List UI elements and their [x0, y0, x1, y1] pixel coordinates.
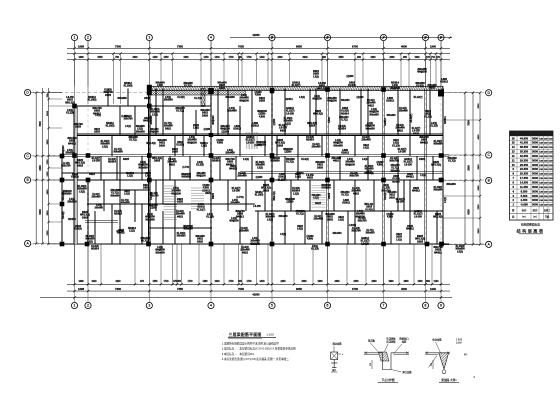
svg-text:4000: 4000: [477, 134, 480, 140]
svg-text:KL5(3): KL5(3): [365, 209, 372, 211]
stair treads mid (grid3-4): [164, 185, 178, 187]
svg-text:(2)200: (2)200: [150, 208, 157, 210]
svg-text:KL1(3): KL1(3): [62, 163, 69, 165]
beam H y=244: [62, 243, 449, 245]
vertical grid lines: [74, 41, 76, 86]
svg-text:L2(2): L2(2): [445, 197, 447, 203]
beam H y=173: [62, 172, 150, 174]
svg-text:L6(1): L6(1): [95, 115, 101, 117]
svg-text:3.本层标高→ 本层梁顶110.: 3.本层标高→ 本层梁顶110.: [222, 352, 255, 356]
svg-text:G2Φ12: G2Φ12: [386, 100, 394, 103]
svg-text:KL7(1): KL7(1): [448, 160, 456, 163]
svg-text:6650: 6650: [296, 45, 302, 49]
svg-text:KL10(3): KL10(3): [124, 85, 133, 88]
svg-text:2Φ18: 2Φ18: [144, 97, 151, 100]
svg-text:L6(1): L6(1): [124, 194, 130, 196]
svg-text:250x400: 250x400: [237, 175, 247, 178]
svg-text:6Φ25: 6Φ25: [212, 192, 215, 198]
svg-text:L3(1): L3(1): [96, 205, 102, 207]
svg-text:KL7(1): KL7(1): [391, 168, 398, 170]
top beam hatched: [149, 86, 443, 90]
svg-text:L3(1): L3(1): [193, 127, 199, 130]
svg-text:2Φ25: 2Φ25: [205, 192, 212, 195]
grid7 beam: [383, 89, 385, 245]
svg-text:N2Φ14: N2Φ14: [392, 180, 400, 183]
svg-text:4.800: 4.800: [377, 164, 384, 167]
svg-text:WKL3(2): WKL3(2): [65, 102, 75, 104]
svg-text:Φ8@100: Φ8@100: [212, 115, 215, 125]
svg-text:250x400: 250x400: [239, 230, 249, 233]
svg-text:Φ8@200: Φ8@200: [390, 87, 400, 90]
svg-text:8: 8: [425, 304, 427, 308]
svg-text:13: 13: [512, 150, 515, 154]
svg-text:L8-250: L8-250: [361, 242, 369, 245]
svg-text:L5(2): L5(2): [313, 198, 319, 200]
beam H y=180: [62, 179, 443, 181]
svg-text:6Φ25: 6Φ25: [413, 132, 420, 135]
svg-text:14.350: 14.350: [520, 181, 529, 185]
svg-text:2Φ20: 2Φ20: [172, 151, 179, 154]
svg-text:KL5(3): KL5(3): [385, 192, 387, 199]
svg-text:1.本图所有钢筋混凝土构件中未注明,皆以轴线居中.: 1.本图所有钢筋混凝土构件中未注明,皆以轴线居中.: [222, 342, 280, 346]
svg-text:4Φ22: 4Φ22: [177, 215, 184, 218]
svg-text:2400: 2400: [46, 189, 49, 195]
svg-text:2Φ20: 2Φ20: [145, 172, 152, 175]
svg-text:N2Φ14: N2Φ14: [341, 112, 349, 115]
svg-text:250x400: 250x400: [311, 146, 321, 149]
svg-text:L2(2): L2(2): [243, 158, 249, 161]
svg-text:梁加固-大样1: 梁加固-大样1: [440, 378, 457, 382]
svg-text:L5(2): L5(2): [79, 190, 85, 193]
svg-text:WKL3(2): WKL3(2): [146, 143, 156, 145]
svg-text:200x450: 200x450: [227, 110, 237, 113]
svg-text:2Φ18: 2Φ18: [328, 192, 331, 198]
svg-text:L8-250: L8-250: [253, 206, 261, 208]
svg-text:KL9(2): KL9(2): [92, 194, 99, 196]
svg-text:250x400: 250x400: [366, 102, 376, 105]
svg-text:300x600: 300x600: [387, 192, 397, 194]
stair treads upper (grid5): [246, 132, 248, 149]
svg-text:3500: 3500: [478, 103, 480, 109]
svg-text:2Φ25: 2Φ25: [75, 126, 82, 129]
svg-text:KL7(1): KL7(1): [184, 85, 192, 88]
svg-text:3400: 3400: [183, 56, 189, 59]
svg-text:(2)200: (2)200: [347, 75, 355, 78]
svg-text:KL7(1): KL7(1): [286, 161, 294, 164]
svg-text:42950: 42950: [252, 292, 260, 296]
svg-text:2Φ18: 2Φ18: [77, 164, 84, 167]
svg-text:3Φ22: 3Φ22: [389, 194, 396, 197]
svg-text:23.350: 23.350: [520, 167, 529, 171]
svg-text:300x650: 300x650: [155, 251, 165, 254]
stair treads right (grid6): [312, 185, 326, 187]
svg-text:7300: 7300: [115, 287, 121, 291]
svg-text:2Φ18: 2Φ18: [393, 175, 400, 178]
svg-text:G2Φ12: G2Φ12: [202, 189, 210, 192]
svg-text:屡: 屡: [511, 208, 515, 212]
grid5 beam: [271, 89, 273, 245]
svg-text:300x800: 300x800: [283, 121, 293, 123]
svg-text:N4Φ12: N4Φ12: [255, 191, 263, 194]
svg-text:KL9(2): KL9(2): [314, 216, 321, 218]
svg-text:1: 1: [74, 36, 76, 40]
svg-text:2Φ25: 2Φ25: [105, 94, 112, 97]
svg-text:(2)200: (2)200: [274, 118, 276, 125]
svg-text:KL7(1): KL7(1): [366, 230, 373, 232]
svg-text:1250: 1250: [203, 57, 209, 59]
svg-text:300x800: 300x800: [176, 236, 186, 238]
svg-text:2060: 2060: [301, 281, 307, 283]
grid6 beam: [327, 89, 329, 245]
svg-text:4: 4: [210, 36, 212, 40]
svg-text:1800: 1800: [403, 281, 409, 283]
svg-text:2Φ25: 2Φ25: [419, 158, 426, 161]
beam H y=190: [118, 189, 150, 191]
svg-text:WKL3(2): WKL3(2): [313, 113, 323, 116]
svg-text:250x500: 250x500: [163, 99, 173, 102]
beam H y=228: [150, 227, 212, 229]
svg-text:Φ8@100: Φ8@100: [187, 141, 197, 144]
svg-text:L8-250: L8-250: [412, 131, 420, 133]
svg-text:KL9(2): KL9(2): [416, 85, 424, 88]
svg-text:300x800: 300x800: [433, 189, 443, 192]
svg-text:KL5(3): KL5(3): [348, 84, 356, 87]
grid circles bottom: [71, 302, 77, 308]
svg-text:6: 6: [327, 304, 329, 308]
svg-text:G2Φ12: G2Φ12: [384, 118, 387, 126]
svg-text:200x450: 200x450: [196, 172, 206, 175]
svg-text:4Φ22: 4Φ22: [429, 87, 436, 90]
svg-text:4Φ22: 4Φ22: [338, 216, 345, 219]
svg-text:2400: 2400: [39, 165, 42, 171]
svg-text:4.800: 4.800: [328, 116, 331, 122]
svg-text:300x650: 300x650: [365, 127, 375, 130]
svg-text:2060: 2060: [389, 57, 395, 59]
svg-text:N2Φ14: N2Φ14: [200, 142, 208, 145]
svg-text:KL5(3): KL5(3): [71, 176, 79, 179]
svg-text:L8-250: L8-250: [232, 190, 240, 193]
svg-text:250x500: 250x500: [332, 233, 342, 235]
svg-text:2Φ18: 2Φ18: [82, 216, 89, 219]
svg-text:3000: 3000: [532, 194, 538, 198]
svg-text:L5(2): L5(2): [257, 166, 263, 169]
beam H y=134.8: [75, 134, 443, 136]
svg-text:Φ8@100: Φ8@100: [417, 71, 427, 74]
svg-text:1698: 1698: [78, 281, 84, 283]
svg-text:L8-250: L8-250: [398, 151, 406, 154]
svg-text:KL9(2): KL9(2): [301, 158, 309, 161]
svg-text:N2Φ14: N2Φ14: [338, 128, 346, 131]
svg-text:11.350: 11.350: [520, 185, 529, 189]
beam H y=172.5: [240, 172, 443, 174]
svg-text:2Φ18: 2Φ18: [366, 206, 373, 209]
svg-text:200x450: 200x450: [149, 128, 159, 131]
horizontal grid lines: [31, 92, 62, 94]
svg-text:300x650: 300x650: [181, 176, 191, 179]
svg-text:N4Φ12: N4Φ12: [229, 168, 237, 171]
svg-text:3: 3: [148, 36, 150, 40]
svg-text:6700: 6700: [352, 45, 358, 49]
svg-text:2Φ20: 2Φ20: [177, 201, 184, 204]
svg-text:KL10(3): KL10(3): [365, 166, 374, 168]
svg-text:2Φ18: 2Φ18: [177, 141, 184, 144]
svg-text:L5(2): L5(2): [285, 123, 291, 125]
svg-text:200x450: 200x450: [225, 152, 235, 155]
svg-text:7050: 7050: [238, 287, 244, 291]
svg-text:..: ..: [223, 332, 225, 336]
svg-text:(4.750): (4.750): [182, 166, 190, 169]
svg-text:3000: 3000: [532, 176, 538, 180]
beam H y=211: [255, 210, 443, 212]
svg-text:1698: 1698: [78, 57, 84, 59]
svg-text:WKL3(2): WKL3(2): [364, 173, 374, 175]
svg-text:L2(2): L2(2): [127, 175, 133, 178]
svg-text:KL7(1): KL7(1): [340, 120, 347, 122]
svg-text:1:100: 1:100: [266, 332, 274, 336]
svg-text:35.350: 35.350: [520, 150, 529, 154]
svg-text:9: 9: [440, 304, 442, 308]
svg-text:2900: 2900: [47, 110, 49, 116]
svg-text:2: 2: [87, 36, 89, 40]
svg-text:300x600: 300x600: [110, 194, 120, 197]
svg-text:1450: 1450: [152, 280, 158, 283]
svg-text:Φ8@200: Φ8@200: [312, 98, 322, 101]
svg-text:节点大样图: 节点大样图: [382, 378, 395, 382]
svg-text:5: 5: [271, 304, 273, 308]
svg-text:7500: 7500: [468, 120, 471, 126]
svg-text:6700: 6700: [352, 287, 358, 291]
svg-text:300x650: 300x650: [138, 166, 148, 169]
svg-text:1900: 1900: [430, 45, 436, 49]
svg-text:KL5(3): KL5(3): [176, 145, 183, 147]
svg-text:300x700: 300x700: [351, 230, 361, 233]
svg-text:6: 6: [327, 36, 329, 40]
svg-text:N4Φ12: N4Φ12: [420, 141, 428, 144]
svg-text:L8-250: L8-250: [92, 160, 100, 163]
svg-text:4Φ22: 4Φ22: [397, 129, 404, 132]
svg-text:1100: 1100: [434, 281, 440, 283]
svg-text:L5(2): L5(2): [457, 250, 463, 253]
svg-text:2400: 2400: [370, 56, 376, 59]
svg-text:8.350: 8.350: [521, 189, 528, 193]
svg-text:300x650: 300x650: [278, 216, 288, 218]
svg-text:26.350: 26.350: [520, 163, 529, 167]
svg-text:KL7(1): KL7(1): [194, 97, 202, 100]
right edge: [442, 89, 444, 245]
grid circles left: [25, 89, 31, 95]
dimension band bottom: [74, 244, 76, 284]
grid3 beam: [149, 89, 151, 245]
svg-text:45°: 45°: [464, 354, 468, 357]
svg-text:2600: 2600: [478, 164, 480, 170]
svg-text:Φ8@200: Φ8@200: [229, 220, 239, 223]
dimension band top: [230, 37, 452, 39]
svg-text:L3(1): L3(1): [396, 239, 402, 241]
svg-text:2Φ18: 2Φ18: [263, 189, 270, 192]
svg-text:WKL3(2): WKL3(2): [431, 164, 441, 167]
svg-text:4Φ22: 4Φ22: [363, 144, 370, 147]
svg-text:4.800: 4.800: [259, 115, 266, 118]
svg-text:Φ8@200: Φ8@200: [62, 145, 65, 155]
svg-text:6Φ25: 6Φ25: [67, 99, 74, 102]
svg-text:L8-250: L8-250: [414, 215, 422, 218]
svg-text:KL7(1): KL7(1): [296, 213, 304, 216]
svg-text:2060: 2060: [277, 57, 283, 59]
svg-text:10: 10: [512, 163, 515, 167]
svg-text:KL12(7): KL12(7): [278, 179, 287, 181]
svg-text:4Φ22: 4Φ22: [333, 160, 340, 163]
svg-text:2Φ20: 2Φ20: [159, 144, 166, 147]
svg-text:G2Φ12: G2Φ12: [278, 176, 286, 179]
svg-text:Φ8@100: Φ8@100: [239, 99, 249, 102]
svg-text:300x650: 300x650: [333, 144, 343, 147]
svg-text:KL1(3): KL1(3): [206, 216, 214, 219]
svg-text:17.350: 17.350: [520, 176, 529, 180]
svg-text:1020: 1020: [91, 281, 97, 283]
svg-text:(4.800): (4.800): [254, 144, 262, 147]
svg-text:KL7(1): KL7(1): [176, 110, 184, 113]
svg-text:KL10(3): KL10(3): [106, 125, 115, 128]
svg-text:2200: 2200: [280, 281, 286, 283]
svg-text:2.350: 2.350: [521, 198, 528, 202]
notch: [383, 353, 392, 370]
svg-text:1300: 1300: [417, 281, 423, 283]
svg-text:L2(2): L2(2): [231, 218, 237, 220]
svg-text:4Φ22: 4Φ22: [368, 104, 375, 107]
svg-text:3000: 3000: [532, 158, 538, 162]
svg-text:1430: 1430: [152, 56, 158, 59]
svg-text:250x400: 250x400: [91, 196, 101, 199]
storey elevation table: [510, 131, 554, 220]
svg-text:L3(1): L3(1): [299, 96, 305, 99]
svg-text:32.350: 32.350: [520, 154, 529, 158]
svg-text:4.800: 4.800: [234, 125, 241, 128]
svg-text:1740: 1740: [163, 280, 169, 283]
svg-text:-0.650: -0.650: [520, 203, 528, 207]
stair treads mid2: [191, 187, 204, 189]
svg-text:3350: 3350: [338, 57, 344, 59]
svg-text:KL10(3): KL10(3): [88, 99, 97, 102]
svg-text:6Φ25: 6Φ25: [307, 177, 314, 180]
svg-text:L2(2): L2(2): [201, 146, 207, 148]
svg-text:L2(2): L2(2): [129, 230, 135, 233]
svg-text:KL1(3): KL1(3): [392, 144, 400, 147]
svg-text:(2)200: (2)200: [256, 177, 263, 179]
svg-text:L8-250: L8-250: [246, 141, 254, 144]
svg-text:250x500: 250x500: [340, 192, 350, 194]
svg-text:2Φ18: 2Φ18: [154, 160, 161, 163]
svg-text:300x800: 300x800: [117, 97, 127, 100]
svg-text:N4Φ12: N4Φ12: [406, 228, 414, 231]
svg-text:3000: 3000: [532, 154, 538, 158]
svg-text:(4.750): (4.750): [236, 196, 244, 199]
svg-text:250x500: 250x500: [339, 117, 349, 119]
svg-text:KL1(3): KL1(3): [430, 125, 438, 128]
svg-text:L8-250: L8-250: [66, 97, 74, 99]
beam H y=155.5: [62, 155, 449, 157]
svg-text:3000: 3000: [532, 198, 538, 202]
svg-text:N2Φ14: N2Φ14: [285, 98, 293, 101]
svg-text:20.350: 20.350: [520, 172, 529, 176]
svg-text:1: 1: [74, 304, 76, 308]
svg-text:3000: 3000: [532, 167, 538, 171]
svg-text:2Φ20: 2Φ20: [143, 187, 150, 190]
svg-text:(m): (m): [533, 216, 537, 219]
svg-text:14: 14: [512, 145, 515, 149]
svg-text:5: 5: [271, 36, 273, 40]
svg-text:7350: 7350: [177, 45, 183, 49]
svg-text:2Φ20: 2Φ20: [317, 166, 324, 169]
svg-text:4Φ22: 4Φ22: [353, 192, 360, 195]
svg-text:250x500: 250x500: [390, 165, 400, 167]
grid8 beam: [425, 89, 427, 245]
grid circles right: [486, 90, 492, 96]
svg-text:300x600: 300x600: [386, 115, 396, 117]
svg-text:层高: 层高: [532, 208, 538, 212]
svg-text:N4Φ12: N4Φ12: [412, 190, 420, 193]
svg-text:(4.800): (4.800): [296, 172, 304, 175]
extension lines top: [74, 54, 76, 104]
svg-text:KL10(3): KL10(3): [177, 233, 186, 235]
svg-text:1440: 1440: [259, 280, 265, 283]
top wall crosshatch (grid3 to mid): [149, 91, 245, 95]
svg-text:KL1(3): KL1(3): [311, 248, 319, 251]
svg-text:KL7(1): KL7(1): [341, 195, 348, 197]
svg-text:2Φ20: 2Φ20: [219, 87, 226, 90]
svg-text:L3(1): L3(1): [145, 176, 151, 178]
svg-text:1440: 1440: [214, 56, 220, 59]
svg-text:7300: 7300: [115, 45, 121, 49]
svg-text:KL7(1): KL7(1): [141, 240, 149, 243]
beam H y=221.5: [85, 221, 118, 223]
svg-text:300x600: 300x600: [390, 170, 400, 172]
svg-text:300x600: 300x600: [120, 202, 130, 205]
svg-text:3Φ22: 3Φ22: [165, 127, 172, 130]
svg-text:3000: 3000: [532, 181, 538, 185]
svg-text:1440: 1440: [259, 56, 265, 59]
svg-text:Φ8@100: Φ8@100: [327, 100, 337, 103]
svg-text:3000: 3000: [532, 163, 538, 167]
svg-text:N2Φ14: N2Φ14: [212, 160, 220, 163]
svg-text:3Φ22: 3Φ22: [94, 128, 101, 131]
svg-text:WKL3(2): WKL3(2): [364, 204, 374, 206]
svg-text:8: 8: [425, 36, 427, 40]
svg-text:3300: 3300: [132, 57, 138, 59]
svg-text:7: 7: [383, 36, 385, 40]
svg-text:L3(1): L3(1): [125, 126, 131, 128]
svg-text:2Φ20: 2Φ20: [259, 100, 266, 103]
svg-text:250x400: 250x400: [398, 110, 408, 113]
svg-text:N4Φ12: N4Φ12: [236, 215, 244, 218]
svg-text:300x650: 300x650: [183, 228, 193, 231]
svg-text:(m): (m): [522, 216, 526, 219]
svg-text:KL12(7): KL12(7): [412, 128, 421, 130]
svg-text:300x650: 300x650: [369, 113, 379, 116]
svg-text:2300: 2300: [353, 281, 359, 283]
svg-text:WKL3(2): WKL3(2): [433, 216, 443, 219]
svg-text:300x800: 300x800: [433, 143, 443, 146]
beam H y=106: [75, 105, 211, 107]
svg-text:7350: 7350: [177, 287, 183, 291]
svg-text:2.本层标高→ 本层梁顶标高(X.XX-0.050)X.X,: 2.本层标高→ 本层梁顶标高(X.XX-0.050)X.X,各梁端部参见说明.: [222, 347, 297, 351]
svg-text:G2Φ12: G2Φ12: [342, 202, 350, 205]
svg-text:4.800: 4.800: [307, 238, 314, 241]
svg-text:L5(2): L5(2): [102, 145, 108, 148]
svg-text:WKL3(2): WKL3(2): [317, 87, 327, 90]
svg-text:2200: 2200: [47, 230, 49, 236]
left edge lower: [61, 156, 63, 244]
svg-text:KL9(2): KL9(2): [367, 100, 374, 102]
